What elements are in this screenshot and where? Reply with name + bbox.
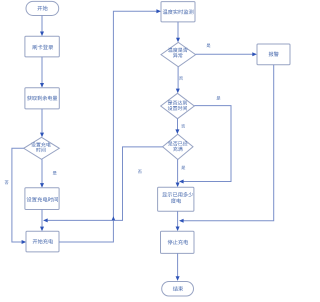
decision 是否已经充满? bbox=[163, 134, 193, 159]
process 设置充电时间 bbox=[25, 188, 59, 210]
wire 显示已用多少度电→停止充电 bbox=[176, 211, 180, 231]
process 获取剩余电量 bbox=[25, 88, 59, 109]
wire 报警→merge 停止充电 bbox=[179, 65, 274, 223]
wire 是否达到设置时间 是→merge bbox=[179, 106, 231, 184]
process 开始充电 bbox=[26, 231, 59, 252]
wire 开始充电→温度实时监测 bbox=[59, 9, 161, 242]
process 显示已用多少度电 bbox=[158, 187, 194, 211]
label 是 (time reached) bbox=[217, 96, 221, 100]
wire 温度是否异常→报警 bbox=[196, 52, 257, 56]
label 否 (left loop) bbox=[5, 181, 9, 185]
wire 是否达到设置时间→是否已经充满 bbox=[175, 119, 179, 134]
decision 设置充电时间? bbox=[24, 137, 60, 159]
label 是 (full) bbox=[181, 166, 185, 170]
wire 温度是否异常→是否达到设置时间 bbox=[176, 67, 180, 93]
label 是 (下) bbox=[53, 171, 57, 175]
wire 否 loop →开始充电 left bbox=[12, 148, 26, 244]
wire 是否已经充满 否 loop bbox=[43, 147, 163, 223]
process 刷卡登录 bbox=[25, 36, 59, 57]
wire 设置充电时间判断→设置充电时间 bbox=[40, 159, 44, 187]
process 停止充电 bbox=[161, 231, 195, 253]
start oval 开始 bbox=[26, 1, 59, 15]
wire 刷卡登录→获取剩余电量 bbox=[40, 57, 44, 88]
wire 获取剩余电量→设置充电时间判断 bbox=[40, 109, 44, 137]
process 温度实时监测 bbox=[161, 2, 195, 22]
label 否 (not full) bbox=[138, 170, 142, 174]
label 是 (→报警) bbox=[207, 44, 211, 48]
process 报警 bbox=[257, 44, 290, 65]
wire 开始→刷卡登录 bbox=[40, 16, 44, 37]
wire 温度实时监测→温度是否异常 bbox=[176, 22, 180, 42]
decision 是否达到设置时间? bbox=[161, 93, 195, 118]
decision 温度是否异常? bbox=[161, 42, 196, 66]
wire 是否已经充满→显示已用多少度电 bbox=[176, 159, 180, 187]
wire 停止充电→结束 bbox=[176, 253, 180, 281]
wire 设置充电时间→开始充电 bbox=[40, 210, 44, 232]
label 否 (down) bbox=[179, 76, 183, 80]
label 否 (not reached) bbox=[181, 124, 185, 128]
end oval 结束 bbox=[162, 282, 194, 297]
